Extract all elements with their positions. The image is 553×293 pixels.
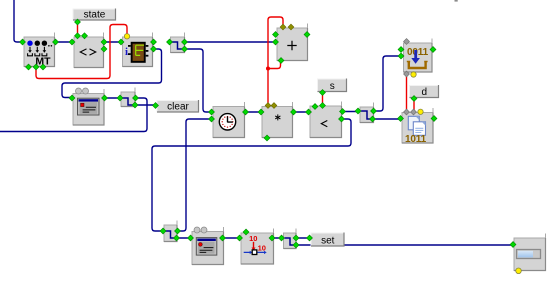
svg-text:10: 10 [258,243,266,252]
junction L4 ports [279,235,300,248]
wire junction L5 to dec2bin 1011 [373,118,401,120]
adder ports [273,24,311,63]
wire junction L2 to clear label [135,104,156,106]
wire clock to multiplier [246,111,262,113]
state label box [73,9,116,21]
wire less-than to junction L5 [343,111,359,113]
wire scaler to junction L4 [272,237,282,239]
register ports [118,34,157,52]
wire d label to 1011 (red) [413,99,415,112]
junction L2 ports [117,95,139,108]
wire junction L1 to adder [185,41,276,43]
wire s label to less-than top port (red) [322,93,324,106]
comparator ports [69,33,107,52]
s label port [320,90,326,96]
svg-text:10: 10 [249,234,257,243]
wire junction L3 to window2 [177,237,191,239]
wire adder feedback loop (red) [266,17,283,106]
svg-text:set: set [321,236,335,247]
d label port [411,96,417,102]
junction L3 ports [160,228,181,241]
clear label port [153,103,159,109]
slider input port [510,242,516,248]
wire window1 to junction L2 [105,97,121,99]
junction L5 [360,103,374,124]
wire junction L5 to bin2dec 0011 [374,56,401,111]
wire MT to comparator [56,41,73,43]
slider yellow output port [516,268,522,274]
not-equal comparator block <> [74,33,104,69]
clock timer block [213,102,245,138]
junction L1 ports [167,39,188,52]
wire state label to comparator top port (red) [77,22,79,36]
junction L5 ports [355,108,377,122]
clock ports [209,109,249,122]
window/dialog block 1 [73,89,105,126]
junction L3 [164,221,178,243]
scaler ports [237,229,276,241]
svg-text:i: i [125,46,128,58]
less-than comparator block < [310,102,342,139]
window1 ports [69,95,108,101]
wire MT bottom to register yellow port (red) [36,25,127,79]
register/memory block with chip icon [123,33,154,68]
adder block + [277,24,308,62]
copy block 1011 [402,108,434,145]
junction L4 [284,229,297,250]
svg-text:1011: 1011 [405,134,427,145]
window/dialog block 2 [192,227,224,265]
multiplier ports [258,103,297,141]
window1 unconnected pins [76,88,89,94]
set label port [307,235,313,241]
d label box [410,85,440,98]
wire comparator to register [104,41,121,43]
multiplier block * [262,102,293,138]
clear label box [157,100,199,113]
junction L1 [171,33,186,54]
wire junction L4 to slider block [296,244,513,246]
wire less-than bottom out to junction L3 [152,119,351,231]
wire junction L3 top to clock lower port [178,119,212,231]
MT ports [20,39,59,70]
wire 0011 to 1011 (red) [406,74,408,112]
wire input from top-left to MT [14,0,23,42]
bin insert block 0011 [404,39,433,73]
wire window2 to scaler [223,237,240,239]
wire junction L2 to left edge [0,98,147,132]
svg-text:state: state [84,10,106,21]
wire register to window1 [62,49,162,98]
slider/progress display block [514,234,546,272]
wire multiplier to comparator-less [294,111,309,113]
svg-text:clear: clear [167,102,189,113]
state label port [75,19,81,25]
set label box [311,233,345,247]
1011 ports [398,109,438,122]
junction L2 [121,88,136,108]
svg-text:s: s [330,81,335,92]
0011 ports [398,39,436,78]
less-than ports [306,103,346,123]
scaler block 10/10 [241,229,274,265]
svg-text:d: d [421,87,427,98]
window2 ports [188,235,226,241]
s label box [318,79,348,93]
svg-text:0011: 0011 [407,47,429,58]
clipped artifact at top edge [455,0,458,2]
multi-thread MT source block [24,33,55,68]
wire junction L1 to clock [185,49,212,112]
window2 unconnected pins [194,227,207,233]
wire junction L4 to set label [296,237,310,239]
